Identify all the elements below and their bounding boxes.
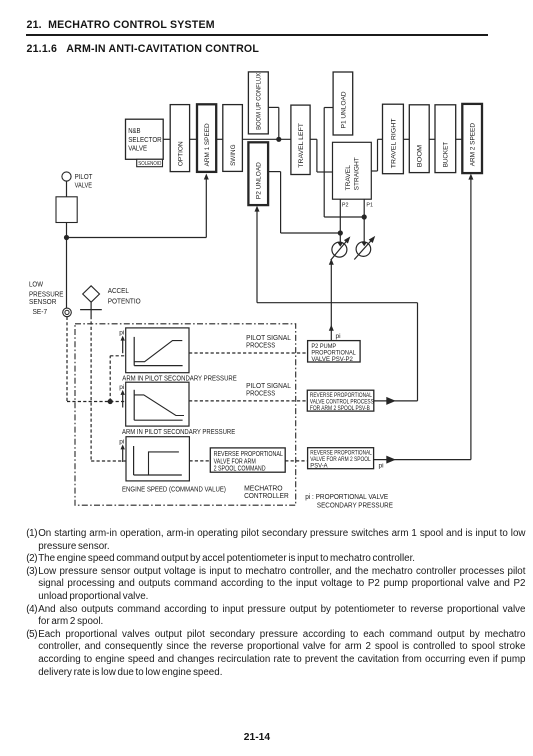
svg-text:ARM 2 SPEED: ARM 2 SPEED: [470, 123, 477, 166]
svg-text:PRESSURE: PRESSURE: [29, 291, 64, 298]
svg-text:BOOM UP CONFLUX: BOOM UP CONFLUX: [256, 73, 263, 130]
svg-text:SECONDARY PRESSURE: SECONDARY PRESSURE: [317, 500, 393, 509]
svg-text:P2: P2: [342, 203, 349, 209]
svg-text:POTENTIO: POTENTIO: [108, 299, 142, 306]
svg-text:FOR ARM 2 SPOOL PSV-B: FOR ARM 2 SPOOL PSV-B: [310, 405, 370, 412]
svg-text:STRAIGHT: STRAIGHT: [354, 157, 361, 190]
svg-text:ACCEL: ACCEL: [108, 288, 129, 295]
svg-text:pi: pi: [119, 384, 124, 391]
svg-text:SE-7: SE-7: [33, 309, 48, 316]
svg-text:BUCKET: BUCKET: [443, 142, 450, 167]
svg-text:P1: P1: [366, 203, 373, 209]
svg-text:ARM IN PILOT SECONDARY PRESSUR: ARM IN PILOT SECONDARY PRESSURE: [122, 429, 235, 436]
svg-text:PSV-A: PSV-A: [310, 463, 328, 470]
svg-text:TRAVEL LEFT: TRAVEL LEFT: [298, 123, 305, 168]
svg-text:VALVE: VALVE: [75, 181, 92, 190]
svg-text:SENSOR: SENSOR: [29, 299, 56, 306]
svg-text:PROCESS: PROCESS: [246, 340, 275, 349]
svg-text:SWING: SWING: [230, 145, 237, 166]
svg-text:P1 UNLOAD: P1 UNLOAD: [340, 91, 347, 128]
svg-text:VALVE FOR ARM: VALVE FOR ARM: [214, 458, 256, 465]
svg-text:VALVE PSV-P2: VALVE PSV-P2: [311, 356, 353, 363]
svg-text:pi: pi: [119, 438, 124, 445]
svg-text:pi: pi: [336, 333, 341, 340]
svg-text:SELECTOR: SELECTOR: [128, 137, 162, 144]
svg-text:VALVE: VALVE: [128, 146, 147, 153]
svg-text:P2 UNLOAD: P2 UNLOAD: [256, 162, 263, 199]
svg-text:OPTION: OPTION: [177, 141, 184, 166]
svg-text:LOW: LOW: [29, 282, 43, 289]
svg-text:CONTROLLER: CONTROLLER: [244, 491, 289, 500]
svg-text:BOOM: BOOM: [417, 144, 424, 167]
svg-text:N&B: N&B: [128, 128, 141, 135]
svg-text:TRAVEL: TRAVEL: [345, 165, 352, 191]
svg-text:ENGINE SPEED (COMMAND VALUE): ENGINE SPEED (COMMAND VALUE): [122, 486, 226, 493]
svg-text:REVERSE PROPORTIONAL: REVERSE PROPORTIONAL: [214, 451, 283, 458]
svg-text:2 SPOOL COMMAND: 2 SPOOL COMMAND: [214, 465, 266, 472]
svg-text:ARM 1 SPEED: ARM 1 SPEED: [204, 123, 211, 166]
svg-text:pi: pi: [379, 462, 384, 469]
svg-text:TRAVEL RIGHT: TRAVEL RIGHT: [390, 118, 397, 168]
svg-text:SOLENOID: SOLENOID: [138, 161, 161, 167]
svg-text:PROCESS: PROCESS: [246, 389, 275, 398]
svg-text:pi: pi: [119, 330, 124, 337]
